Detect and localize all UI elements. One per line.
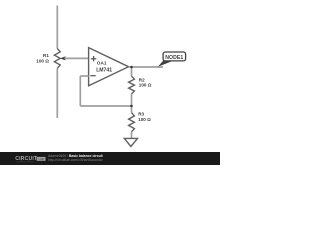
svg-text:100 Ω: 100 Ω [139,83,152,88]
svg-text:CIRCUIT: CIRCUIT [15,156,38,162]
resistor R3 [129,113,135,132]
node junction at op-amp output [130,66,133,69]
wire feedback horizontal [80,105,131,107]
svg-text:LM741: LM741 [96,67,112,73]
svg-text:LAB: LAB [38,157,44,161]
wire minus input left [80,75,88,77]
svg-text:R1: R1 [43,53,49,58]
wire wiper to op-amp + input [64,57,88,59]
wire R2 bottom lead [131,94,133,106]
op-amp OA1 [89,48,129,86]
ground [124,138,137,146]
svg-text:OA1: OA1 [97,61,107,66]
node NODE1 flag box [163,52,186,61]
resistor R2 [129,76,135,94]
svg-text:R3: R3 [138,112,144,117]
wire below R1 [56,68,58,118]
wire R3 bottom lead [131,132,133,139]
wire R3 top lead [131,106,133,113]
svg-text:http://circuitlab.com/c/5hah6l: http://circuitlab.com/c/5hah6laocxdw [48,158,103,162]
node junction at R2/R3 [130,105,133,108]
op-amp OA1 inverting input pin - [90,75,95,77]
wire feedback vertical [79,76,81,106]
svg-text:100 Ω: 100 Ω [36,59,49,64]
footer bar [0,152,220,165]
logo LAB badge [37,157,46,161]
logo waveform [16,161,34,162]
resistor R1 [54,49,60,69]
op-amp OA1 non-inverting input pin + [91,56,96,61]
wire op-amp output [129,66,163,68]
wire R2 top lead [131,67,133,76]
svg-text:100 Ω: 100 Ω [138,117,151,122]
R1 wiper arrow [60,56,65,60]
wire top vertical [56,6,58,49]
node NODE1 flag tail [158,60,174,66]
svg-text:NODE1: NODE1 [165,55,183,61]
